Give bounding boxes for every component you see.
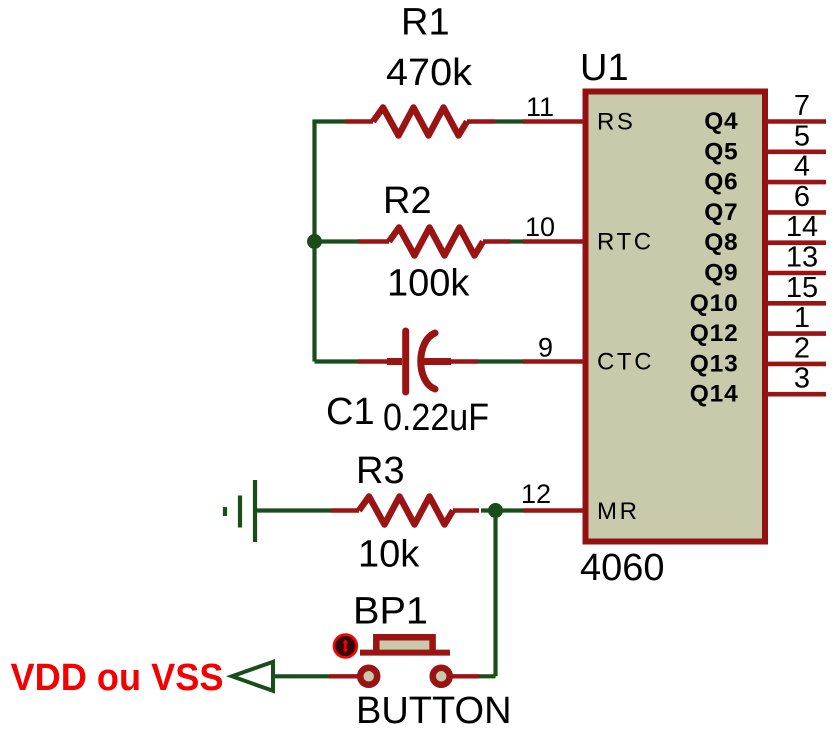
svg-text:10k: 10k — [358, 534, 420, 576]
svg-text:11: 11 — [526, 92, 554, 122]
svg-text:0.22uF: 0.22uF — [383, 397, 489, 439]
resistor R1 — [345, 108, 495, 136]
pin Q9 line — [767, 271, 826, 276]
svg-text:3: 3 — [794, 363, 810, 395]
wire — [493, 511, 497, 677]
node junction — [488, 503, 503, 518]
wire — [257, 508, 331, 512]
svg-text:R1: R1 — [401, 2, 450, 44]
svg-text:15: 15 — [786, 272, 818, 304]
pin Q7 line — [767, 210, 826, 215]
svg-text:U1: U1 — [580, 47, 629, 89]
button BP1 contact bar — [360, 650, 450, 656]
terminal arrow VDD ou VSS — [232, 662, 273, 691]
svg-text:10: 10 — [525, 212, 555, 242]
button BP1 pusher cap — [376, 637, 432, 652]
pin Q13 line — [767, 362, 826, 367]
pin RTC line — [523, 239, 584, 243]
wire — [478, 359, 524, 363]
svg-text:C1: C1 — [326, 391, 375, 433]
capacitor C1 — [358, 331, 478, 392]
pin MR line — [524, 508, 585, 512]
svg-text:BUTTON: BUTTON — [356, 690, 512, 732]
pin Q12 line — [767, 331, 826, 336]
pin Q10 line — [767, 301, 826, 306]
pin Q14 line — [767, 392, 826, 397]
svg-text:BP1: BP1 — [353, 591, 428, 633]
node junction — [307, 234, 322, 249]
wire — [315, 359, 359, 363]
svg-text:MR: MR — [597, 498, 640, 525]
svg-text:CTC: CTC — [597, 349, 654, 376]
pin RS line — [523, 119, 584, 123]
svg-text:RTC: RTC — [597, 229, 654, 256]
svg-text:5: 5 — [794, 120, 810, 152]
svg-text:Q8: Q8 — [704, 229, 738, 256]
svg-text:4060: 4060 — [580, 547, 665, 589]
wire — [315, 122, 346, 124]
wire — [312, 122, 316, 362]
svg-text:Q9: Q9 — [704, 260, 738, 287]
svg-text:4: 4 — [794, 151, 810, 183]
svg-text:12: 12 — [521, 479, 551, 509]
resistor R2 — [358, 228, 510, 256]
svg-text:Q13: Q13 — [690, 350, 739, 377]
svg-text:1: 1 — [794, 302, 810, 334]
svg-text:R2: R2 — [383, 180, 432, 222]
svg-text:13: 13 — [786, 242, 818, 274]
pin Q8 line — [767, 240, 826, 245]
wire — [273, 674, 329, 678]
svg-text:Q7: Q7 — [704, 199, 738, 226]
wire — [315, 239, 360, 243]
ground — [225, 480, 255, 542]
svg-text:7: 7 — [794, 90, 810, 122]
wire — [481, 508, 525, 512]
svg-text:VDD ou VSS: VDD ou VSS — [11, 657, 224, 699]
button BP1 right terminal — [433, 668, 450, 685]
op IC U1 body — [586, 92, 766, 542]
svg-text:470k: 470k — [386, 52, 473, 94]
svg-text:RS: RS — [597, 109, 636, 136]
svg-text:9: 9 — [538, 333, 553, 363]
resistor R3 — [331, 497, 479, 525]
svg-text:2: 2 — [794, 332, 810, 364]
svg-text:14: 14 — [786, 211, 818, 243]
svg-text:Q5: Q5 — [704, 138, 738, 165]
svg-text:Q6: Q6 — [704, 169, 738, 196]
svg-text:Q14: Q14 — [690, 381, 739, 408]
button BP1 left lead — [329, 674, 359, 678]
svg-text:Q4: Q4 — [704, 108, 738, 135]
svg-text:100k: 100k — [387, 263, 470, 305]
button BP1 left terminal — [360, 668, 377, 685]
wire — [509, 239, 524, 243]
pin Q5 line — [767, 150, 826, 155]
button BP1 actuator — [334, 635, 357, 658]
svg-text:Q12: Q12 — [690, 320, 739, 347]
wire — [495, 119, 524, 123]
pin CTC line — [523, 359, 584, 363]
pin Q4 line — [767, 119, 826, 124]
svg-text:6: 6 — [794, 181, 810, 213]
svg-text:Q10: Q10 — [690, 290, 739, 317]
svg-text:R3: R3 — [356, 450, 405, 492]
pin Q6 line — [767, 180, 826, 185]
button BP1 right lead — [451, 674, 479, 678]
wire — [478, 674, 496, 678]
